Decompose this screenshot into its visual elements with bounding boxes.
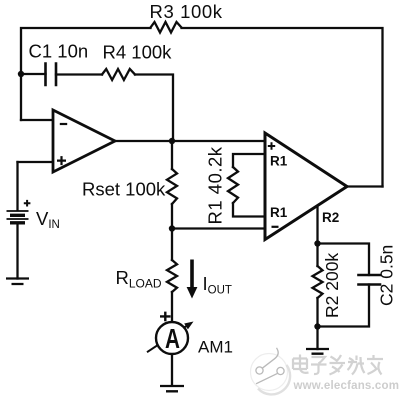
IOUT current arrow xyxy=(190,260,194,289)
wire RLOAD to ammeter xyxy=(171,292,173,323)
wire R1 top stub xyxy=(233,154,265,167)
resistor RLOAD xyxy=(167,260,177,292)
wire bottom node to ground xyxy=(316,327,318,350)
lower node junction dot xyxy=(169,225,175,231)
resistor R2 xyxy=(313,266,323,298)
svg-text:C1 10n: C1 10n xyxy=(29,41,89,62)
svg-text:R1: R1 xyxy=(270,153,288,168)
watermark chinese characters xyxy=(293,355,383,375)
svg-text:R2: R2 xyxy=(322,210,339,225)
ground VIN xyxy=(6,279,29,285)
wire ammeter to ground xyxy=(171,354,173,386)
svg-text:R3 100k: R3 100k xyxy=(150,1,223,22)
wire node A to C1 xyxy=(21,73,46,75)
ammeter AM1 circle xyxy=(156,322,188,354)
svg-text:VIN: VIN xyxy=(36,208,60,231)
wire node down to R2 xyxy=(316,244,318,267)
capacitor C1 xyxy=(46,64,57,86)
resistor R4 xyxy=(102,69,135,80)
op-amp U1 plus symbol xyxy=(57,156,66,165)
wire op-amp U2 R2 pin down to node xyxy=(316,206,318,244)
wire from + input down to battery VIN xyxy=(16,162,18,210)
svg-text:www.elecfans.com: www.elecfans.com xyxy=(293,380,400,392)
wire Rset to lower node xyxy=(171,204,173,229)
R2 bottom junction dot xyxy=(314,323,320,329)
wire inverting input op-amp U1 xyxy=(21,119,53,121)
wire lower node down to RLOAD xyxy=(171,229,173,261)
wire R2 to bottom node xyxy=(316,298,318,327)
wire C2 bottom back to R2 bottom node xyxy=(318,285,370,327)
wire non-inverting input op-amp U1 xyxy=(18,161,54,163)
svg-text:Rset 100k: Rset 100k xyxy=(82,179,166,200)
watermark phone icon disc xyxy=(251,348,291,395)
wire from R3 right to corner and down the right side xyxy=(182,28,383,187)
resistor Rset xyxy=(167,169,177,204)
svg-text:R1 40.2k: R1 40.2k xyxy=(205,146,226,224)
ground R2 xyxy=(306,349,329,354)
resistor R3 xyxy=(151,22,182,33)
svg-text:R2 200k: R2 200k xyxy=(322,253,342,318)
svg-text:R1: R1 xyxy=(270,205,288,220)
op-amp U2 minus symbol xyxy=(272,226,279,228)
wire R4 right side down to main node xyxy=(135,75,173,142)
svg-text:A: A xyxy=(165,324,180,355)
ammeter plus symbol xyxy=(160,312,171,322)
wire lower node to op-amp U2 - input xyxy=(172,227,265,229)
wire battery to ground xyxy=(16,224,18,279)
battery plus symbol xyxy=(24,200,31,207)
wire R1 bottom stub xyxy=(233,203,265,217)
ammeter AM1 arrow xyxy=(147,326,187,352)
wire main node down to Rset xyxy=(171,141,173,169)
svg-text:RLOAD: RLOAD xyxy=(116,267,162,291)
op-amp U2 xyxy=(265,133,347,240)
svg-text:IOUT: IOUT xyxy=(203,273,232,297)
svg-text:AM1: AM1 xyxy=(198,338,233,357)
op-amp U2 plus symbol xyxy=(268,142,275,149)
R2 top junction dot xyxy=(314,240,320,246)
op-amp U1 minus symbol xyxy=(60,123,67,125)
wire C1 to R4 xyxy=(56,73,102,75)
wire top left from node A up and right to R3 xyxy=(21,28,151,120)
battery VIN xyxy=(7,211,29,223)
svg-text:C2 0.5n: C2 0.5n xyxy=(377,245,397,306)
capacitor C2 xyxy=(359,275,381,285)
main node junction dot xyxy=(169,138,175,144)
wire node to C2 top xyxy=(318,244,370,276)
resistor R1 xyxy=(228,167,238,203)
op-amp U1 xyxy=(53,110,115,172)
wire op-amp U2 output xyxy=(347,185,383,187)
wire op-amp U1 output to op-amp U2 + input xyxy=(115,140,265,142)
node A junction dot xyxy=(18,71,24,77)
svg-text:R4 100k: R4 100k xyxy=(103,42,173,63)
ground AM1 xyxy=(160,386,184,391)
